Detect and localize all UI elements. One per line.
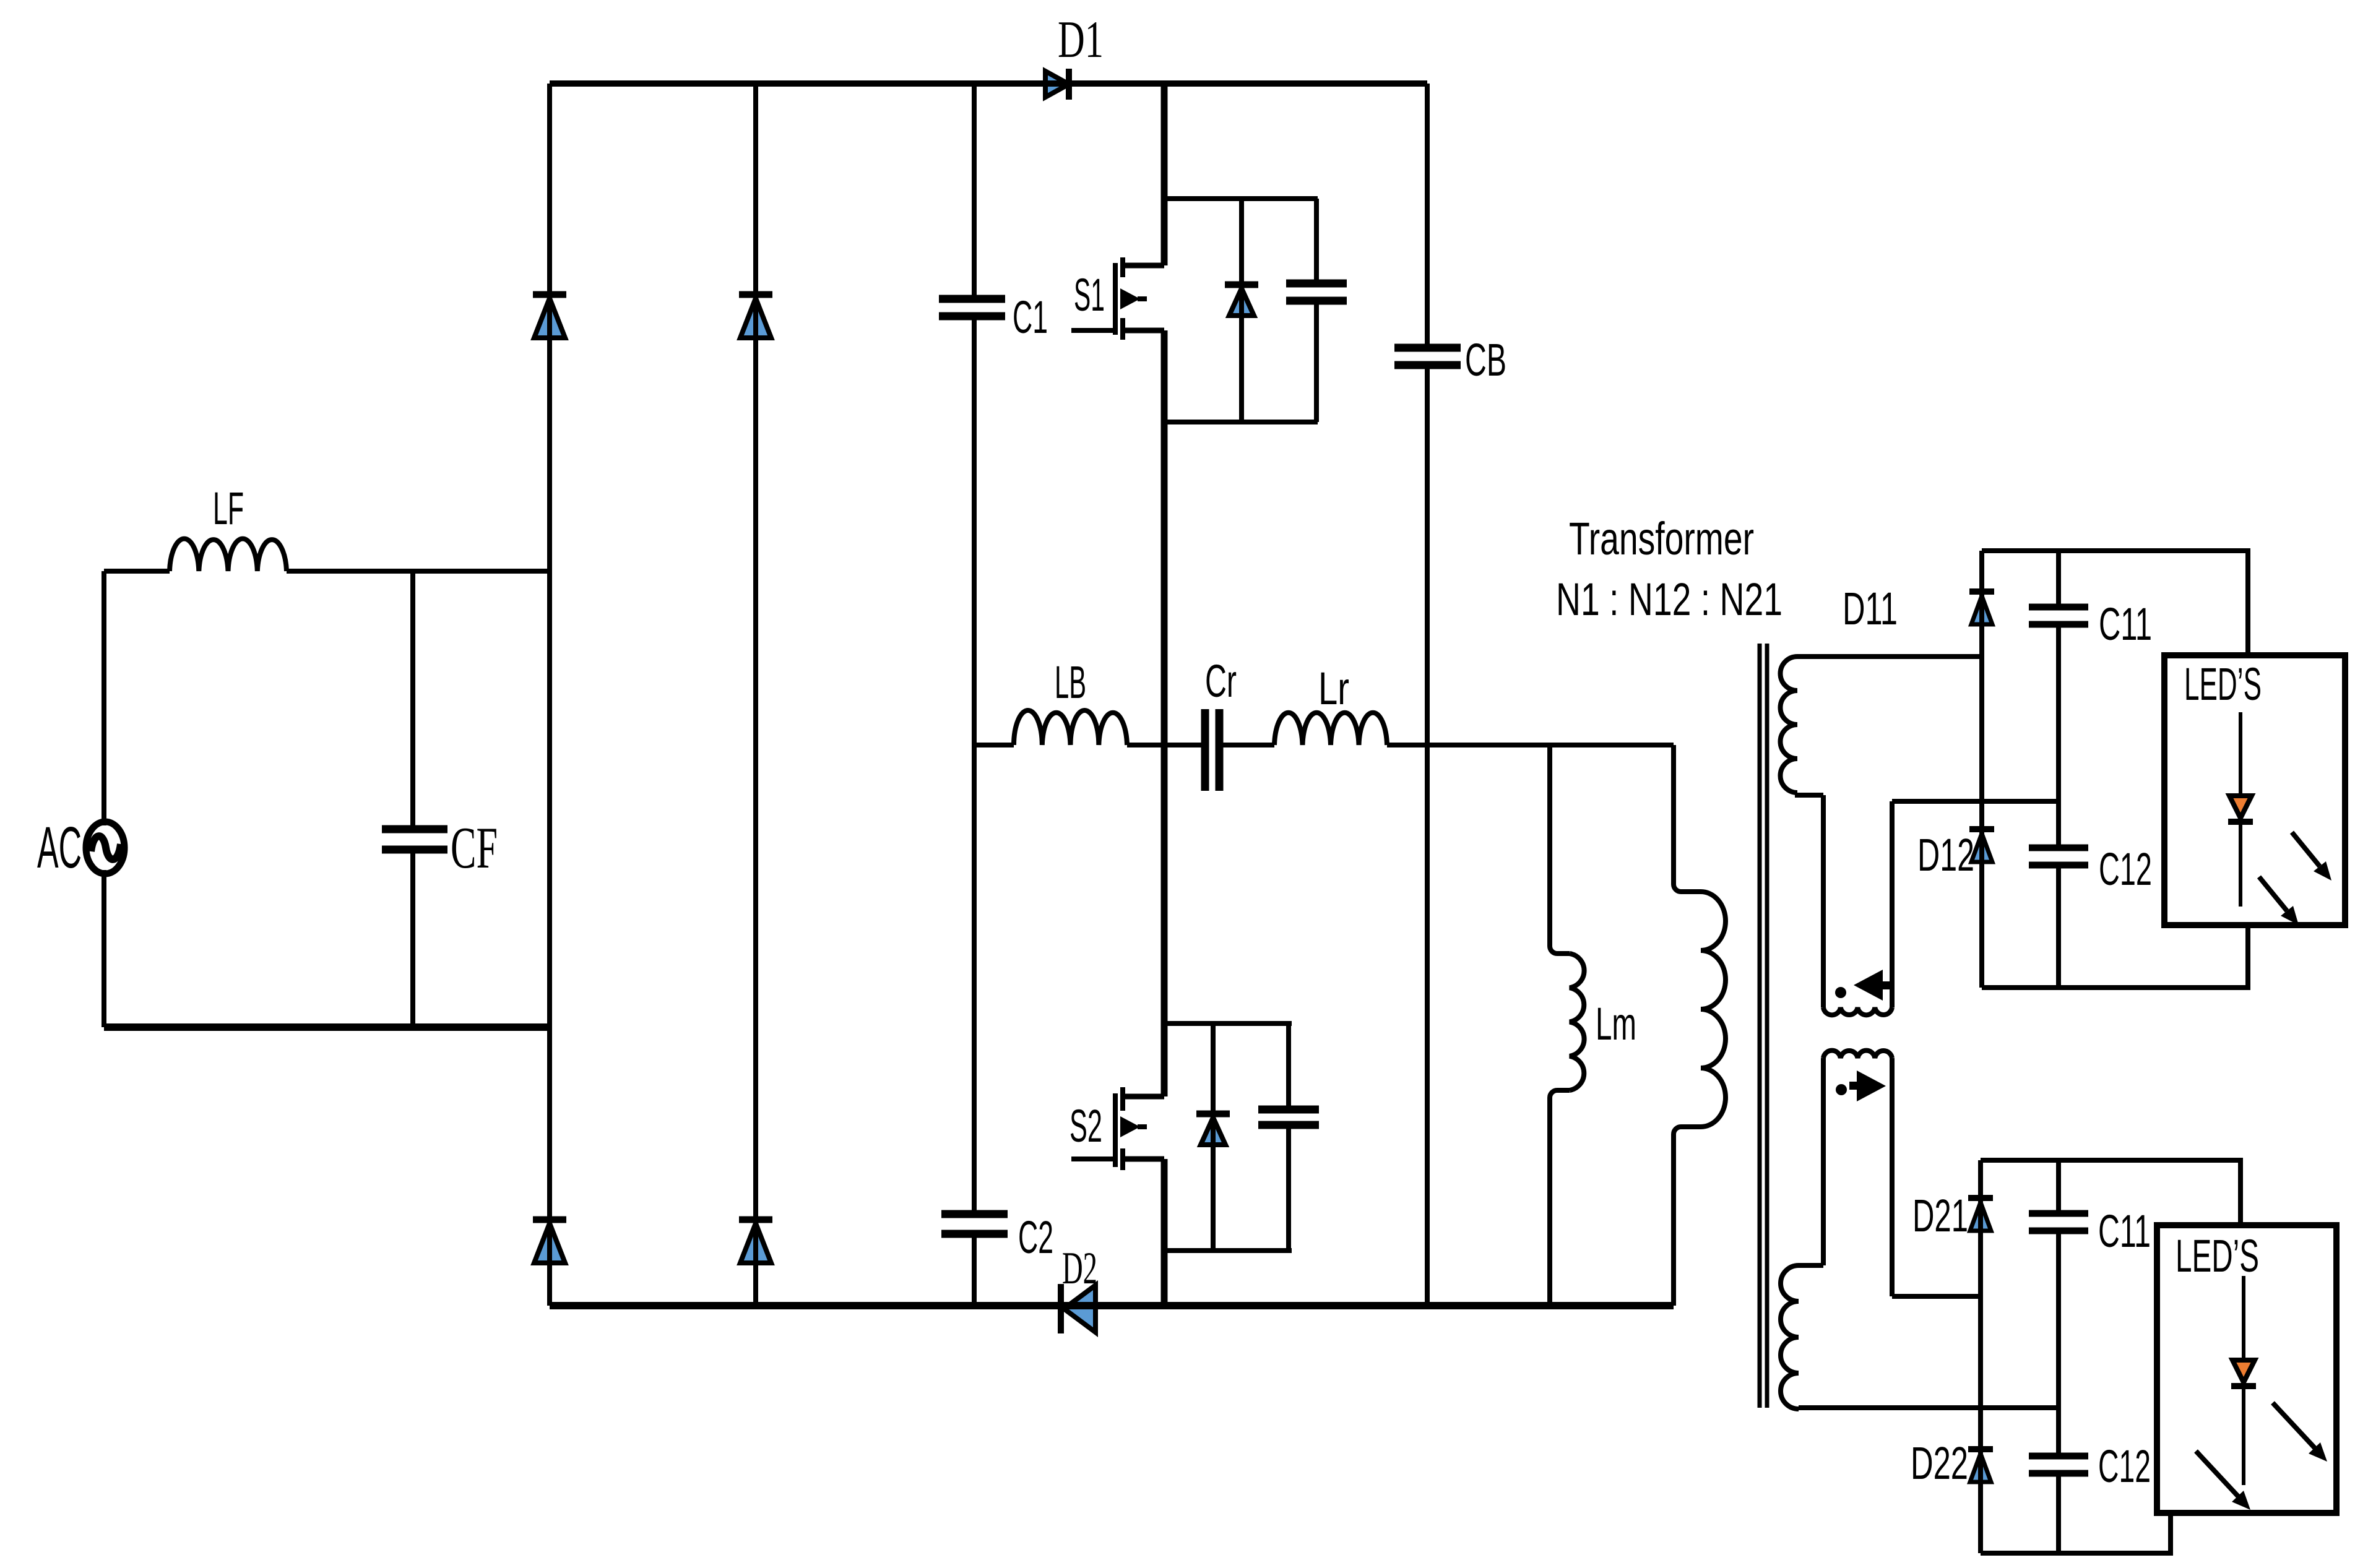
svg-text:D11: D11 [1843,583,1898,634]
svg-text:N1 : N12 : N21: N1 : N12 : N21 [1556,574,1782,625]
svg-text:LF: LF [213,483,244,534]
svg-text:CB: CB [1465,334,1506,386]
svg-text:D1: D1 [1058,11,1104,69]
svg-text:D2: D2 [1062,1243,1097,1294]
svg-text:C11: C11 [2099,598,2152,650]
svg-text:C11: C11 [2098,1205,2151,1257]
svg-text:S1: S1 [1074,269,1105,321]
svg-text:Cr: Cr [1205,655,1237,707]
svg-text:C1: C1 [1013,291,1048,343]
svg-text:S2: S2 [1069,1100,1102,1152]
svg-text:Lr: Lr [1318,663,1349,714]
svg-text:LED’S: LED’S [2176,1230,2259,1282]
svg-text:C12: C12 [2099,843,2152,895]
svg-text:AC: AC [37,815,82,881]
svg-text:C2: C2 [1018,1212,1053,1263]
svg-text:D21: D21 [1912,1190,1968,1241]
svg-text:LED’S: LED’S [2184,658,2262,710]
svg-text:C12: C12 [2098,1441,2151,1492]
svg-text:Transformer: Transformer [1569,513,1754,564]
svg-text:CF: CF [451,815,498,881]
svg-text:D22: D22 [1911,1437,1968,1489]
svg-text:D12: D12 [1917,829,1974,881]
svg-text:Lm: Lm [1596,998,1636,1049]
svg-text:LB: LB [1055,657,1086,708]
